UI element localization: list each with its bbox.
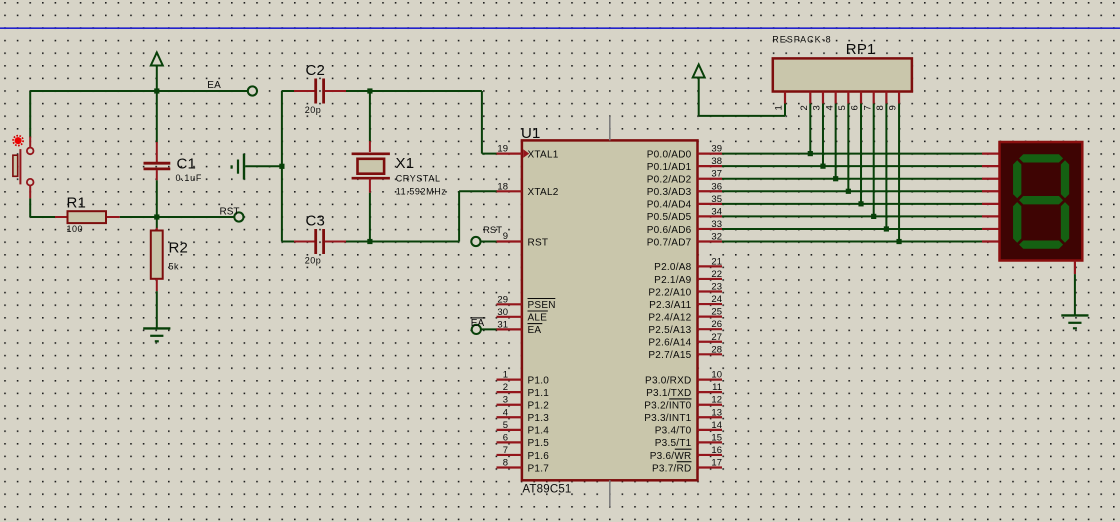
resistor R2 [151,217,163,291]
label RP1 [846,41,876,58]
wire R2 to ground [156,291,158,328]
microcontroller U1 AT89C51 body [522,140,698,480]
node junction RP1-6/P0.4 [858,201,863,206]
pin P3.2/INT0 stub (right) [698,404,723,406]
svg-text:P1.4: P1.4 [528,426,550,437]
pin P0.6/AD6 stub (right) [698,228,723,230]
pin RST stub (left) [497,240,522,242]
pin number 3 (rotated) [812,105,823,110]
pin display seg5 stub [982,215,1000,217]
svg-text:P0.2/AD2: P0.2/AD2 [647,175,692,186]
pin name XTAL2 [528,187,559,198]
svg-text:39: 39 [711,144,722,155]
pin name P3.1/TXD [646,388,691,399]
pin number 15 [711,432,722,443]
label X1 [396,155,415,172]
pin name P2.6/A14 [648,338,691,349]
svg-text:38: 38 [711,156,722,167]
pin number 3 [503,395,508,406]
wire P0.4 to display [722,203,983,205]
svg-text:3: 3 [812,105,823,110]
display segment a [1019,154,1063,162]
value 0.1uF [176,173,203,183]
marker XTAL1 arrow [523,149,529,158]
pin number 31 [497,319,508,330]
svg-text:22: 22 [711,269,722,280]
pin PSEN stub (left) [497,303,522,305]
wire C2 to crystal column [346,90,370,92]
svg-text:XTAL1: XTAL1 [528,149,559,160]
pin name P0.6/AD6 [647,225,692,236]
value CRYSTAL [396,173,441,183]
pin P3.3/INT1 stub (right) [698,416,723,418]
svg-text:0.1uF: 0.1uF [176,173,203,183]
svg-text:31: 31 [497,319,508,330]
svg-text:P3.1/TXD: P3.1/TXD [646,388,691,399]
wire to XTAL2 pin [370,191,497,241]
pin number 35 [711,194,722,205]
svg-text:26: 26 [711,319,722,330]
svg-text:P1.3: P1.3 [528,413,550,424]
wire P0.0 to display [722,153,983,155]
svg-text:15: 15 [711,432,722,443]
wire button to R1 row [30,198,55,217]
pin number 12 [711,395,722,406]
pin name P0.0/AD0 [647,149,692,160]
svg-text:20p: 20p [305,255,322,265]
pin number 25 [711,307,722,318]
svg-text:P1.0: P1.0 [528,375,550,386]
pin number 4 [503,407,508,418]
terminal EA (chip side) [472,325,481,334]
pin number 8 [503,458,508,469]
pin number 30 [497,307,508,318]
wire RP1 pin 8 down to P0.6 net [885,104,887,229]
node rail junction [279,164,284,169]
label C2 [306,62,326,79]
pin P1.2 stub (left) [497,404,522,406]
pin number 7 (rotated) [862,105,873,110]
svg-text:36: 36 [711,181,722,192]
display segment b [1061,160,1069,198]
display segment g [1019,196,1063,204]
pin number 2 (rotated) [799,105,810,110]
svg-text:30: 30 [497,307,508,318]
pin P2.6/A14 stub (right) [698,341,723,343]
svg-text:5k: 5k [169,261,180,271]
pin number 32 [711,232,722,243]
svg-text:P1.6: P1.6 [528,451,550,462]
ground (crystal, rotated left) [232,154,244,180]
svg-text:AT89C51: AT89C51 [522,484,571,496]
pin display seg6 stub [982,228,1000,230]
svg-text:18: 18 [497,181,508,192]
wire RP1 pin 4 down to P0.2 net [835,104,837,179]
node junction RP1-3/P0.1 [820,164,825,169]
wire P0.5 to display [722,215,983,217]
value 11.592MHz [396,187,447,197]
pin name P3.4/T0 [655,426,692,437]
node junction RP1-7/P0.5 [871,214,876,219]
pin number 22 [711,269,722,280]
svg-text:5: 5 [837,105,848,110]
wire ground to left rail [245,165,282,167]
display segment f [1013,160,1021,198]
wire P0.3 to display [722,190,983,192]
svg-text:P1.5: P1.5 [528,438,550,449]
svg-text:P3.7/RD: P3.7/RD [652,463,692,474]
wire P0.2 to display [722,178,983,180]
svg-text:P0.5/AD5: P0.5/AD5 [647,212,692,223]
svg-text:6: 6 [503,432,508,443]
svg-text:P2.1/A9: P2.1/A9 [654,275,692,286]
pin number 23 [711,282,722,293]
svg-text:7: 7 [503,445,508,456]
svg-text:P3.5/T1: P3.5/T1 [655,438,692,449]
pin XTAL2 stub (left) [497,190,522,192]
node RST junction [154,214,159,219]
wire RP1 pin 5 down to P0.3 net [847,104,849,192]
svg-text:C1: C1 [177,156,197,173]
pin number 33 [711,219,722,230]
pin number 1 [503,370,508,381]
marker grey line top [609,116,611,140]
svg-text:EA: EA [528,325,542,336]
svg-text:17: 17 [711,458,722,469]
pin name P0.1/AD1 [647,162,692,173]
pin number 17 [711,458,722,469]
pin number 6 [503,432,508,443]
svg-text:35: 35 [711,194,722,205]
wire P0.1 to display [722,165,983,167]
pin P2.0/A8 stub (right) [698,265,723,267]
svg-text:7: 7 [862,105,873,110]
svg-text:28: 28 [711,344,722,355]
pin P3.1/TXD stub (right) [698,391,723,393]
display segment d [1019,240,1063,248]
pin name P0.2/AD2 [647,175,692,186]
svg-text:23: 23 [711,282,722,293]
pin P0.3/AD3 stub (right) [698,190,723,192]
pin number 34 [711,206,722,217]
wire left rail vertical [281,91,283,242]
pin number 18 [497,181,508,192]
pin number 6 (rotated) [850,105,861,110]
svg-text:P0.0/AD0: P0.0/AD0 [647,149,692,160]
svg-text:P3.6/WR: P3.6/WR [650,451,692,462]
pin number 9 [503,231,508,242]
blue sheet border line [0,27,1120,29]
pin number 8 (rotated) [875,105,886,110]
svg-text:16: 16 [711,445,722,456]
pin P1.1 stub (left) [497,391,522,393]
label C3 [306,213,326,230]
pin name P0.7/AD7 [647,237,692,248]
pin P2.5/A13 stub (right) [698,328,723,330]
pin number 13 [711,407,722,418]
value 20p (C2) [305,105,322,115]
svg-text:RST: RST [528,237,549,248]
node crystal top junction [367,88,372,93]
pin display seg1 stub [982,165,1000,167]
pin RP1.6 stub [860,92,862,104]
svg-text:P1.7: P1.7 [528,463,550,474]
pin name P3.2/INT0 [644,399,691,412]
pin number 10 [711,370,722,381]
svg-text:CRYSTAL: CRYSTAL [396,173,441,183]
resistor pack RP1 body [773,58,912,91]
svg-text:4: 4 [824,105,835,110]
pin name P1.3 [528,413,550,424]
pin name P2.2/A10 [648,287,691,298]
svg-text:P2.4/A12: P2.4/A12 [648,312,691,323]
label R2 [169,240,189,257]
label U1 [521,125,541,142]
node crystal bottom junction [367,239,372,244]
pin XTAL1 stub (left) [497,153,522,155]
pin P3.4/T0 stub (right) [698,429,723,431]
svg-text:11.592MHz: 11.592MHz [396,187,447,197]
pin name P1.1 [528,388,550,399]
pin name P3.6/WR [650,449,692,462]
value 100 [67,224,84,234]
pin RP1.2 stub [809,92,811,104]
pin P3.5/T1 stub (right) [698,441,723,443]
wire P0.6 to display [722,228,983,230]
svg-text:19: 19 [497,144,508,155]
svg-text:RP1: RP1 [846,41,876,58]
pin name ALE [528,311,548,324]
pin number 5 (rotated) [837,105,848,110]
pin name P2.3/A11 [649,300,692,311]
svg-text:P0.4/AD4: P0.4/AD4 [647,200,692,211]
pin name P0.3/AD3 [647,187,692,198]
pin display seg0 stub [982,153,1000,155]
pin number 2 [503,382,508,393]
svg-text:29: 29 [497,294,508,305]
pin name P1.7 [528,463,550,474]
wire EA net top horizontal [30,90,248,92]
capacitor C2 [294,79,346,104]
svg-text:P0.6/AD6: P0.6/AD6 [647,225,692,236]
pin P3.0/RXD stub (right) [698,379,723,381]
svg-text:P3.3/INT1: P3.3/INT1 [644,413,691,424]
svg-text:ALE: ALE [528,313,548,324]
resistor R1 [55,211,120,223]
pin P1.3 stub (left) [497,416,522,418]
svg-text:X1: X1 [396,155,415,172]
wire top-left vertical to button [29,91,31,138]
pin number 5 [503,420,508,431]
pin number 38 [711,156,722,167]
svg-text:27: 27 [711,332,722,343]
pin number 16 [711,445,722,456]
svg-text:RST: RST [483,225,502,236]
svg-text:PSEN: PSEN [528,300,556,311]
ground (below R2) [143,328,170,341]
svg-text:12: 12 [711,395,722,406]
pin number 26 [711,319,722,330]
pin name P3.7/RD [652,462,692,475]
pin display seg3 stub [982,190,1000,192]
crystal X1 [352,91,390,242]
svg-text:P0.1/AD1: P0.1/AD1 [647,162,692,173]
pin P2.4/A12 stub (right) [698,316,723,318]
svg-text:P2.6/A14: P2.6/A14 [648,338,691,349]
svg-text:RST: RST [220,206,240,217]
label RST (chip side) [483,225,502,236]
pin P0.0/AD0 stub (right) [698,153,723,155]
label EA (left terminal) [207,80,221,91]
svg-text:P2.3/A11: P2.3/A11 [649,300,692,311]
svg-text:6: 6 [850,105,861,110]
label AT89C51 [522,484,571,496]
svg-text:13: 13 [711,407,722,418]
svg-text:10: 10 [711,370,722,381]
pin P2.7/A15 stub (right) [698,353,723,355]
pin name P1.2 [528,401,550,412]
pin name P2.4/A12 [648,312,691,323]
pin ALE stub (left) [497,316,522,318]
svg-text:1: 1 [503,370,508,381]
pin P2.3/A11 stub (right) [698,303,723,305]
svg-text:3: 3 [503,395,508,406]
svg-text:P2.2/A10: P2.2/A10 [648,287,691,298]
pin number 24 [711,294,722,305]
pin name P1.4 [528,426,550,437]
svg-text:100: 100 [67,224,84,234]
pin name P0.4/AD4 [647,200,692,211]
wire EA terminal to chip [481,328,497,330]
value 20p (C3) [305,255,322,265]
terminal RST (left) [234,212,243,221]
svg-text:P1.2: P1.2 [528,401,550,412]
pin P0.2/AD2 stub (right) [698,178,723,180]
pin display seg7 stub [982,240,1000,242]
svg-text:11: 11 [712,382,722,393]
pin RP1.9 stub [898,92,900,104]
terminal RST (chip side) [471,237,480,246]
svg-text:2: 2 [503,382,508,393]
svg-text:25: 25 [711,307,722,318]
pin number 19 [497,144,508,155]
pin P0.4/AD4 stub (right) [698,203,723,205]
pin number 11 [712,382,722,393]
terminal EA (left) [248,86,257,95]
svg-text:24: 24 [711,294,722,305]
pin number 27 [711,332,722,343]
svg-text:5: 5 [503,420,508,431]
svg-text:37: 37 [711,169,722,180]
pin name P1.6 [528,451,550,462]
wire RP1 pin 2 down to P0.0 net [809,104,811,154]
power VCC symbol (right) [693,65,705,116]
pin name P2.5/A13 [648,325,691,336]
pin P1.6 stub (left) [497,454,522,456]
pin RP1.4 stub [835,92,837,104]
node EA junction [154,88,159,93]
pin P3.6/WR stub (right) [698,454,723,456]
svg-text:8: 8 [875,105,886,110]
svg-text:20p: 20p [305,105,322,115]
svg-text:9: 9 [888,105,899,110]
pin P0.1/AD1 stub (right) [698,165,723,167]
svg-text:P0.7/AD7: P0.7/AD7 [647,237,692,248]
label R1 [67,195,87,212]
svg-text:33: 33 [711,219,722,230]
wire RP1 pin 9 down to P0.7 net [898,104,900,242]
pin RP1.3 stub [822,92,824,104]
svg-text:P0.3/AD3: P0.3/AD3 [647,187,692,198]
marker red origin on button [13,136,23,146]
pin RP1.8 stub [885,92,887,104]
node junction RP1-8/P0.6 [884,226,889,231]
display segment c [1061,202,1069,243]
value 5k [169,261,180,271]
svg-text:EA: EA [207,80,221,91]
svg-text:C3: C3 [306,213,326,230]
wire P0.7 to display [722,241,983,243]
label C1 [177,156,197,173]
pin name PSEN [528,299,556,312]
wire R1 to junction [120,216,157,218]
wire common to ground [1074,274,1076,315]
pin P0.7/AD7 stub (right) [698,240,723,242]
node junction RP1-4/P0.2 [833,176,838,181]
svg-text:RESPACK-8: RESPACK-8 [772,35,831,45]
pin number 1 (rotated) [774,105,785,110]
pin number 28 [711,344,722,355]
pin P2.2/A10 stub (right) [698,290,723,292]
wire RP1 pin 3 down to P0.1 net [822,104,824,167]
node junction RP1-5/P0.3 [846,189,851,194]
svg-text:2: 2 [799,105,810,110]
pin number 36 [711,181,722,192]
svg-text:C2: C2 [306,62,326,79]
wire RP1 pin 6 down to P0.4 net [860,104,862,204]
power VCC symbol (left) [151,53,163,92]
wire junction to RST terminal [157,216,235,218]
svg-text:8: 8 [503,458,508,469]
pin display seg4 stub [982,203,1000,205]
pin number 4 (rotated) [824,105,835,110]
capacitor C1 [144,91,171,217]
pin P2.1/A9 stub (right) [698,278,723,280]
svg-text:P3.0/RXD: P3.0/RXD [645,375,691,386]
pin number 9 (rotated) [888,105,899,110]
pin number 14 [711,420,722,431]
pin number 21 [711,256,722,267]
display 7-segment body [1000,142,1083,261]
pin name XTAL1 [528,149,559,160]
label RST (left terminal) [220,206,240,217]
label RESPACK-8 [772,35,831,45]
svg-text:P2.0/A8: P2.0/A8 [654,262,692,273]
node junction RP1-9/P0.7 [896,239,901,244]
pin name P1.0 [528,375,550,386]
svg-text:32: 32 [711,232,722,243]
pin name P3.3/INT1 [644,413,691,424]
pin P3.7/RD stub (right) [698,466,723,468]
capacitor C3 [282,229,346,254]
pin display common [1074,261,1076,275]
pin name P3.5/T1 [655,438,692,449]
pin P1.5 stub (left) [497,441,522,443]
wire to XTAL1 pin [370,91,497,154]
wire RST terminal to chip [481,241,498,243]
svg-text:R1: R1 [67,195,87,212]
display segment e [1013,202,1021,243]
